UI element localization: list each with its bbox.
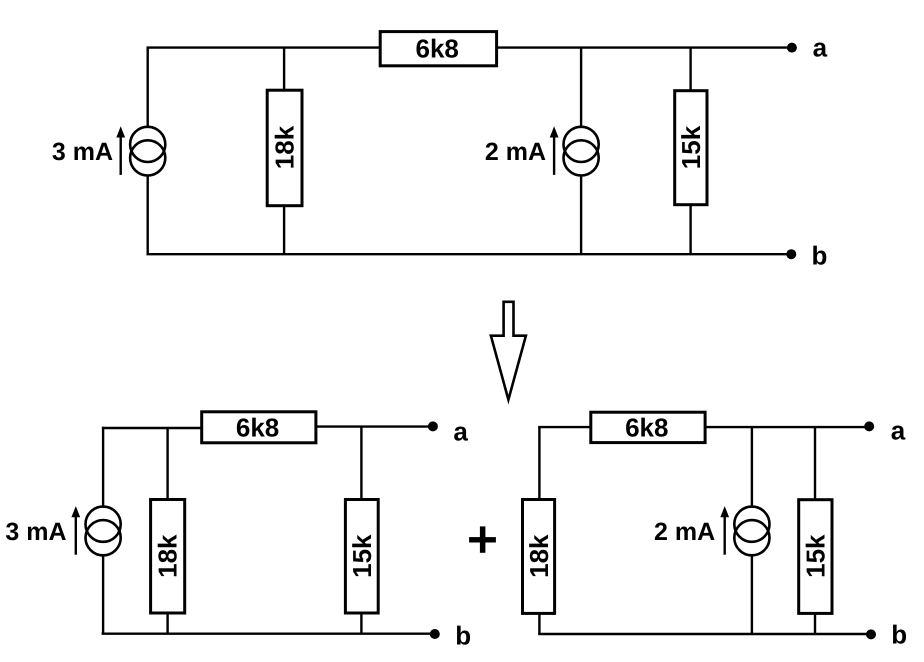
node b terminal dot (top circuit) bbox=[786, 249, 796, 259]
wire 2mA source lower stub (bottom-right circuit) bbox=[751, 556, 753, 634]
wire top bus right segment (top circuit) bbox=[495, 46, 792, 48]
wire bottom bus (bottom-left circuit) bbox=[102, 633, 435, 635]
resistor 18k (bottom-right circuit) bbox=[523, 500, 555, 614]
node b terminal dot (bottom-right circuit) bbox=[866, 629, 876, 639]
plus sign between sub-circuits bbox=[469, 526, 496, 552]
wire 18k lower stub (top circuit) bbox=[283, 206, 285, 254]
node a terminal dot (bottom-right circuit) bbox=[864, 421, 874, 431]
arrow of 2 mA source (bottom-right circuit) bbox=[720, 506, 729, 555]
resistor 6k8 (bottom-left circuit) bbox=[202, 412, 316, 443]
wire 18k lower stub (bottom-left circuit) bbox=[166, 614, 168, 634]
wire 15k lower stub (bottom-left circuit) bbox=[360, 614, 362, 634]
resistor 15k (bottom-left circuit) bbox=[345, 500, 378, 614]
current source 3 mA (bottom-left circuit) bbox=[86, 507, 121, 556]
resistor 18k (bottom-left circuit) bbox=[151, 500, 185, 614]
svg-text:2 mA: 2 mA bbox=[654, 518, 715, 546]
hollow down arrow (decomposition) bbox=[491, 302, 526, 400]
wire left branch lower segment (top circuit) bbox=[146, 176, 148, 254]
wire 2mA source lower stub (top circuit) bbox=[580, 176, 582, 254]
svg-text:15k: 15k bbox=[800, 534, 830, 578]
svg-text:3 mA: 3 mA bbox=[52, 138, 113, 166]
svg-text:3 mA: 3 mA bbox=[5, 518, 66, 546]
wire top bus left segment (top circuit) bbox=[147, 46, 381, 48]
resistor 6k8 (bottom-right circuit) bbox=[591, 412, 705, 442]
svg-text:2 mA: 2 mA bbox=[485, 138, 546, 166]
wire top bus left segment (bottom-right circuit) bbox=[538, 426, 590, 428]
current source I1 3 mA (top circuit) bbox=[130, 127, 165, 176]
svg-text:6k8: 6k8 bbox=[416, 33, 459, 63]
svg-text:a: a bbox=[891, 415, 906, 445]
wire 18k upper stub (bottom-right circuit) bbox=[538, 427, 540, 499]
wire 2mA source upper stub (top circuit) bbox=[580, 48, 582, 127]
wire left branch upper segment (bottom-left circuit) bbox=[102, 427, 104, 506]
resistor 6k8 (top circuit) bbox=[380, 32, 496, 66]
svg-text:b: b bbox=[455, 620, 471, 650]
svg-text:6k8: 6k8 bbox=[236, 412, 279, 442]
resistor 18k (top circuit) bbox=[267, 90, 302, 206]
svg-text:6k8: 6k8 bbox=[625, 413, 668, 443]
svg-text:a: a bbox=[453, 417, 468, 447]
node b terminal dot (bottom-left circuit) bbox=[430, 629, 440, 639]
svg-text:15k: 15k bbox=[676, 125, 706, 169]
wire 15k upper stub (bottom-right circuit) bbox=[814, 427, 816, 499]
wire 15k upper stub (bottom-left circuit) bbox=[360, 427, 362, 499]
wire 18k upper stub (top circuit) bbox=[283, 48, 285, 90]
wire 15k lower stub (top circuit) bbox=[689, 205, 691, 254]
wire 2mA source upper stub (bottom-right circuit) bbox=[751, 427, 753, 506]
svg-text:a: a bbox=[813, 33, 828, 63]
current source I2 2 mA (top circuit) bbox=[564, 127, 599, 176]
node a terminal dot (bottom-left circuit) bbox=[428, 421, 438, 431]
svg-text:18k: 18k bbox=[270, 125, 300, 169]
wire 18k lower stub (bottom-right circuit) bbox=[538, 614, 540, 634]
wire 18k upper stub (bottom-left circuit) bbox=[166, 428, 168, 499]
wire bottom bus (bottom-right circuit) bbox=[538, 633, 871, 635]
arrow of 3 mA source (bottom-left circuit) bbox=[71, 506, 80, 555]
svg-text:b: b bbox=[891, 620, 907, 650]
arrow of current source I2 bbox=[550, 126, 559, 175]
svg-text:18k: 18k bbox=[524, 534, 554, 578]
arrow of current source I1 bbox=[116, 126, 125, 175]
current source 2 mA (bottom-right circuit) bbox=[734, 507, 769, 556]
wire 15k lower stub (bottom-right circuit) bbox=[814, 614, 816, 634]
wire top bus right segment (bottom-left circuit) bbox=[316, 425, 433, 427]
wire top bus right segment (bottom-right circuit) bbox=[705, 426, 869, 428]
wire 15k upper stub (top circuit) bbox=[689, 48, 691, 90]
wire left branch lower segment (bottom-left circuit) bbox=[102, 556, 104, 634]
resistor 15k (bottom-right circuit) bbox=[799, 500, 832, 614]
svg-text:b: b bbox=[811, 241, 827, 271]
svg-text:15k: 15k bbox=[347, 534, 377, 578]
wire left branch upper segment (top circuit) bbox=[146, 48, 148, 127]
wire bottom bus (top circuit) bbox=[147, 253, 792, 255]
node a terminal dot (top circuit) bbox=[787, 43, 797, 53]
svg-text:18k: 18k bbox=[153, 534, 183, 578]
wire top bus left segment (bottom-left circuit) bbox=[102, 427, 201, 429]
resistor 15k (top circuit) bbox=[675, 91, 707, 205]
